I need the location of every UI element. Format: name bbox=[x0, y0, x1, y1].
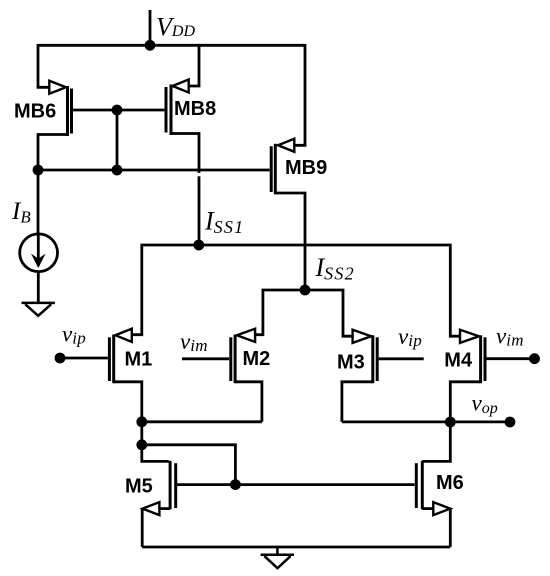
wire left vert to mirror bbox=[140, 422, 143, 445]
transistor M6 bbox=[416, 422, 450, 547]
svg-text:M6: M6 bbox=[436, 472, 464, 494]
wire M4 gate bbox=[486, 357, 534, 360]
wire M6 drain bbox=[422, 422, 450, 461]
wire crossing break below rail bbox=[197, 173, 201, 176]
transistor M4 bbox=[450, 330, 540, 422]
svg-text:M2: M2 bbox=[243, 348, 271, 370]
wire M5-M6 gate wire bbox=[177, 483, 415, 486]
wire gate to diode rail bbox=[116, 110, 119, 170]
wire MB9 source bbox=[295, 44, 305, 145]
wire vop rail bbox=[342, 420, 510, 423]
wire MB6 drain bbox=[38, 135, 68, 171]
node ISS1 dot bbox=[193, 240, 204, 251]
transistor MB9 bbox=[271, 44, 305, 290]
wire M5 diode connection bbox=[142, 445, 236, 485]
wire diode rail y170 bbox=[38, 169, 270, 172]
svg-text:M3: M3 bbox=[337, 352, 365, 374]
node gate junction dot bbox=[112, 105, 123, 116]
transistor MB6 bbox=[38, 44, 72, 170]
wire top VDD rail bbox=[38, 44, 305, 47]
svg-text:MB6: MB6 bbox=[14, 101, 56, 123]
node mirror node dot bbox=[136, 439, 147, 450]
svg-text:MB8: MB8 bbox=[174, 98, 216, 120]
wire M1-M2 drain rail bbox=[142, 420, 262, 423]
wire M5 drain bbox=[142, 445, 169, 462]
wire MB8 source bbox=[189, 44, 199, 86]
wire M1 gate bbox=[60, 357, 108, 360]
wire M3 drain bbox=[342, 382, 373, 422]
wire M5 source bbox=[160, 507, 170, 510]
svg-text:M1: M1 bbox=[125, 348, 153, 370]
wire M2 gate bbox=[182, 357, 229, 360]
node dot 38,170 bbox=[33, 165, 44, 176]
transistor M3 bbox=[342, 330, 424, 422]
node ISS2 dot bbox=[300, 285, 311, 296]
wire MB9 drain bbox=[275, 193, 305, 290]
wire VDD stub bbox=[149, 10, 152, 45]
wire M4 drain bbox=[450, 382, 480, 422]
svg-text:M5: M5 bbox=[125, 476, 153, 498]
wire M2 drain bbox=[235, 382, 262, 422]
wire M6 source bbox=[422, 507, 433, 510]
ground IB bbox=[22, 303, 55, 316]
wire M1 drain bbox=[114, 382, 142, 422]
node vim terminal M4 bbox=[529, 353, 540, 364]
wire MB6 source bbox=[38, 44, 49, 87]
node vop junction dot bbox=[445, 417, 456, 428]
wire IB bottom bbox=[37, 272, 40, 302]
transistor M5 bbox=[142, 445, 176, 547]
wire bottom rail bbox=[142, 546, 450, 549]
ground bottom bbox=[261, 547, 294, 568]
node vop terminal dot bbox=[505, 417, 516, 428]
transistor M1 bbox=[55, 329, 142, 422]
svg-text:M4: M4 bbox=[444, 349, 473, 371]
node dot 117,170 bbox=[112, 165, 123, 176]
node M5 gate dot bbox=[230, 479, 241, 490]
current source IB bbox=[20, 170, 58, 302]
node M1 drain dot bbox=[136, 416, 147, 427]
node VDD junction dot bbox=[145, 40, 156, 51]
wire ISS2 rail with M2 M3 source drops bbox=[255, 290, 353, 336]
wire IB top bbox=[37, 170, 40, 234]
transistor M2 bbox=[182, 329, 262, 422]
wire MB8 drain bbox=[171, 134, 199, 246]
transistor MB8 bbox=[166, 44, 199, 245]
svg-text:MB9: MB9 bbox=[285, 157, 327, 179]
wire ISS1 rail with M1 M4 source drops bbox=[132, 245, 460, 336]
wire MB6-MB8 gate wire bbox=[73, 109, 164, 112]
node vip terminal M1 bbox=[55, 353, 66, 364]
wire M3 gate bbox=[379, 357, 424, 360]
